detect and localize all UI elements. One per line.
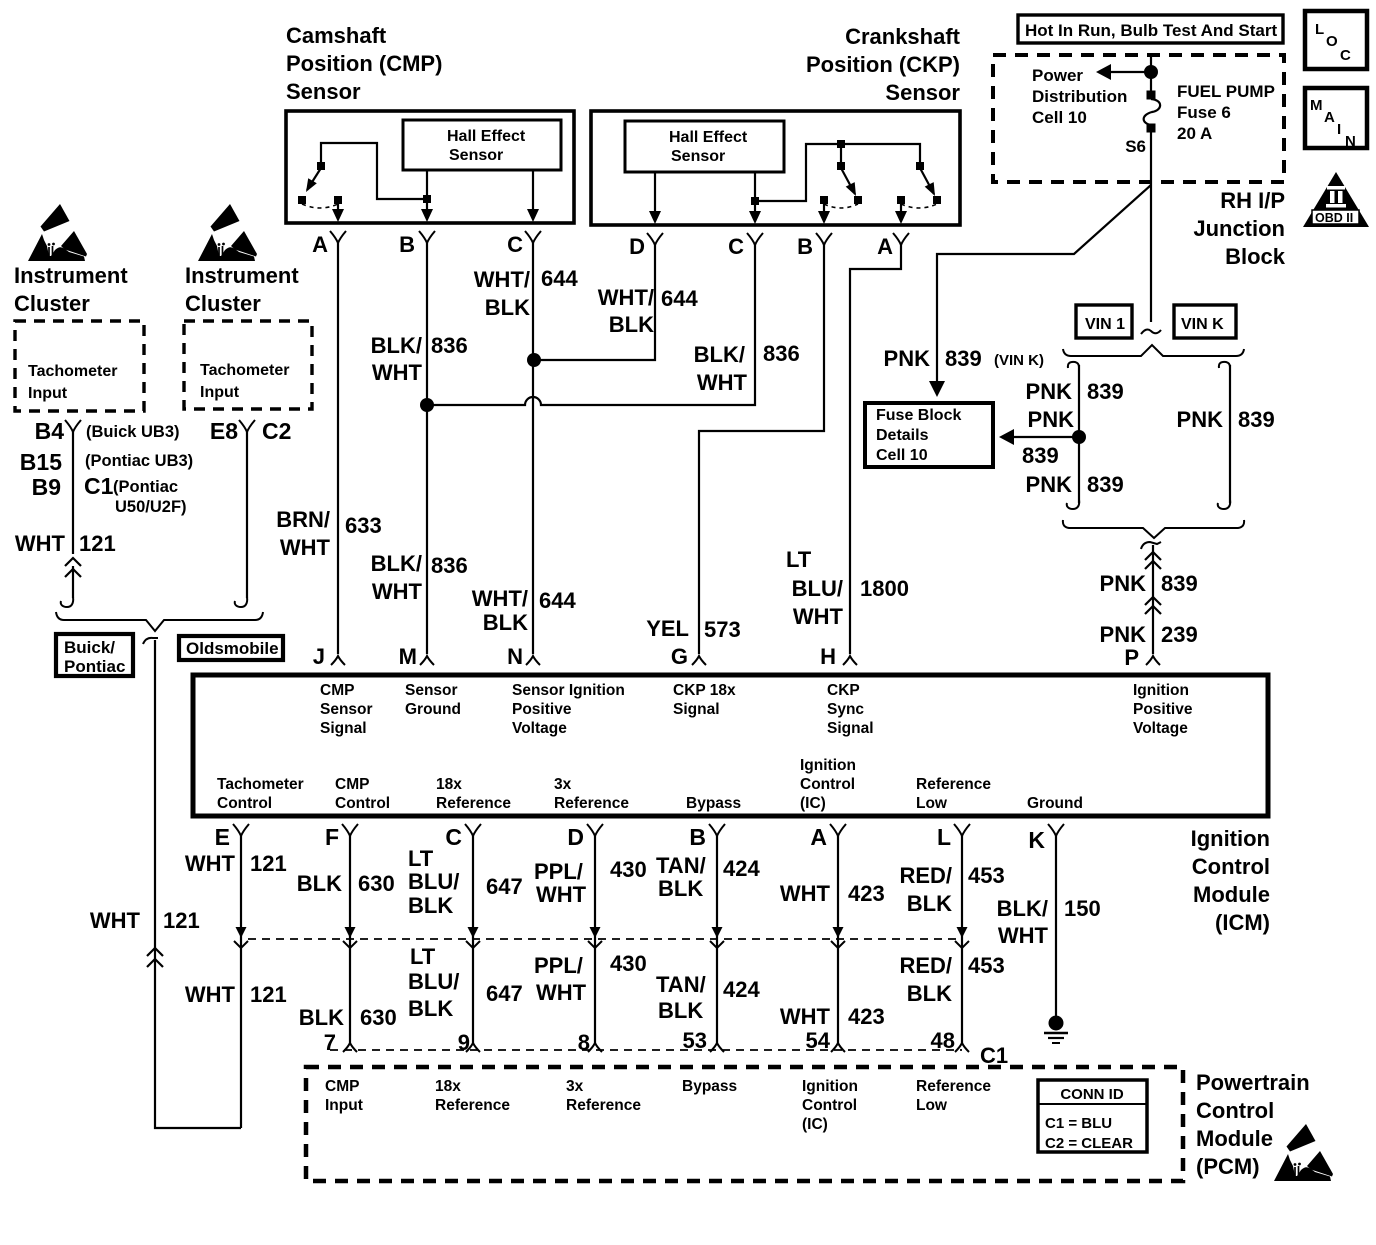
svg-text:PNK: PNK xyxy=(884,346,931,371)
svg-text:I: I xyxy=(1337,121,1341,138)
branch wire VIN K xyxy=(1218,362,1230,509)
CMP connector pin C xyxy=(507,231,541,257)
svg-text:PNK: PNK xyxy=(1100,571,1147,596)
merge brace below branches xyxy=(1063,520,1244,538)
svg-text:453: 453 xyxy=(968,863,1005,888)
svg-text:644: 644 xyxy=(539,588,576,613)
label Instrument Cluster 2 xyxy=(185,263,299,316)
svg-text:Reference: Reference xyxy=(916,1078,991,1095)
ground symbol xyxy=(1044,1016,1068,1044)
svg-text:A: A xyxy=(1324,109,1335,126)
svg-text:B: B xyxy=(797,234,813,259)
CKP sensor box xyxy=(591,111,960,225)
label WHT/BLK 644 lower xyxy=(472,586,577,635)
ICM bottom pin K xyxy=(1028,824,1064,853)
svg-text:A: A xyxy=(312,232,328,257)
svg-text:BLK/: BLK/ xyxy=(694,342,745,367)
label BLK 630 7 (F lower) xyxy=(299,1005,397,1055)
svg-text:C2 = CLEAR: C2 = CLEAR xyxy=(1045,1135,1133,1152)
ICM bottom pin F xyxy=(325,824,358,850)
svg-text:WHT: WHT xyxy=(780,881,831,906)
svg-text:Ground: Ground xyxy=(1027,795,1083,812)
label Instrument Cluster 1 xyxy=(14,263,128,316)
arrow to Power Distribution xyxy=(1096,64,1151,80)
svg-text:BLK: BLK xyxy=(907,891,952,916)
wire continuation chevrons xyxy=(1145,552,1161,569)
svg-text:Instrument: Instrument xyxy=(185,263,299,288)
svg-text:20 A: 20 A xyxy=(1177,124,1212,143)
svg-text:1800: 1800 xyxy=(860,576,909,601)
CKP connector pin A xyxy=(877,233,909,259)
svg-text:C2: C2 xyxy=(262,418,291,444)
RH I/P Junction Block dashed box xyxy=(993,55,1284,182)
svg-text:Tachometer: Tachometer xyxy=(200,362,290,379)
VIN K box xyxy=(1174,305,1236,338)
ICM pin label Ignition Control (IC) xyxy=(800,757,856,812)
label PNK 839 lower on VIN1 branch xyxy=(1026,472,1124,497)
label WHT/BLK 644 upper xyxy=(474,266,579,320)
svg-text:Camshaft: Camshaft xyxy=(286,23,387,48)
connector pin B4 xyxy=(35,418,81,444)
svg-text:Fuse 6: Fuse 6 xyxy=(1177,103,1231,122)
svg-text:121: 121 xyxy=(163,908,200,933)
pass-through connector on wire F xyxy=(343,927,357,948)
svg-text:LT: LT xyxy=(408,846,434,871)
svg-text:Hall Effect: Hall Effect xyxy=(669,129,748,146)
OBD II symbol xyxy=(1303,172,1369,227)
svg-text:633: 633 xyxy=(345,513,382,538)
connector pin E8 C2 xyxy=(210,418,292,444)
Hot In Run Bulb Test And Start box xyxy=(1018,15,1283,43)
svg-text:YEL: YEL xyxy=(646,616,689,641)
svg-text:647: 647 xyxy=(486,874,523,899)
svg-text:WHT/: WHT/ xyxy=(598,285,654,310)
svg-text:Sensor: Sensor xyxy=(286,79,361,104)
svg-text:Powertrain: Powertrain xyxy=(1196,1070,1310,1095)
pass-through connector on wire C xyxy=(466,927,480,948)
ICM top pin M xyxy=(399,644,434,669)
svg-text:RED/: RED/ xyxy=(899,863,952,888)
svg-text:C1: C1 xyxy=(84,473,114,499)
svg-text:BLK: BLK xyxy=(299,1005,344,1030)
svg-text:(Pontiac: (Pontiac xyxy=(113,478,178,496)
svg-text:839: 839 xyxy=(1161,571,1198,596)
svg-text:RH I/P: RH I/P xyxy=(1220,188,1285,213)
label Powertrain Control Module (PCM) xyxy=(1196,1070,1310,1179)
svg-text:Position (CKP): Position (CKP) xyxy=(806,52,960,77)
svg-text:121: 121 xyxy=(250,851,287,876)
lower dashed line at PCM connector xyxy=(330,1049,962,1051)
ICM bottom pin B xyxy=(689,824,725,850)
label WHT 121 (E lower) xyxy=(185,982,287,1007)
svg-text:M: M xyxy=(399,644,417,669)
svg-text:Module: Module xyxy=(1193,882,1270,907)
ICM pin label CKP 18x Signal xyxy=(673,682,736,718)
svg-text:839: 839 xyxy=(1238,407,1275,432)
svg-text:Bypass: Bypass xyxy=(686,795,741,812)
label WHT 423 (A upper) xyxy=(780,881,885,906)
gather brace Buick/Pontiac/Oldsmobile xyxy=(56,612,263,631)
Fuse Block Details Cell 10 box xyxy=(865,403,993,467)
wire CKP pin C internal with arrow xyxy=(749,172,761,224)
ICM pin label Tachometer Control xyxy=(217,776,304,812)
svg-text:WHT: WHT xyxy=(372,579,423,604)
svg-text:WHT: WHT xyxy=(15,531,66,556)
wire CKP D joins N wire xyxy=(533,243,655,360)
svg-text:Sensor Ignition: Sensor Ignition xyxy=(512,682,625,699)
svg-text:Control: Control xyxy=(1192,854,1270,879)
svg-text:3x: 3x xyxy=(554,776,572,793)
label LT BLU/WHT 1800 xyxy=(786,547,909,629)
Tachometer Input dashed box 1 xyxy=(15,321,144,411)
svg-text:836: 836 xyxy=(431,553,468,578)
label BLK/WHT 150 (K) xyxy=(997,896,1101,948)
wire A (WHT 423) xyxy=(837,836,839,1044)
svg-text:Distribution: Distribution xyxy=(1032,87,1127,106)
svg-text:PNK: PNK xyxy=(1028,407,1075,432)
wire CMP A to J (BRN/WHT 633) xyxy=(337,243,339,654)
VIN 1 box xyxy=(1076,305,1132,338)
label YEL 573 xyxy=(646,616,741,642)
svg-text:BLK/: BLK/ xyxy=(371,551,422,576)
svg-text:BLK: BLK xyxy=(658,998,703,1023)
svg-text:N: N xyxy=(507,644,523,669)
label BLK/WHT 836 lower xyxy=(371,551,468,604)
pass-through connector on wire D xyxy=(588,927,602,948)
ICM top pin J xyxy=(313,644,345,669)
svg-text:WHT: WHT xyxy=(780,1004,831,1029)
wire CKP pin A internal with arrow xyxy=(895,204,907,224)
svg-text:BLK: BLK xyxy=(609,312,654,337)
ICM top pin P xyxy=(1124,645,1160,670)
svg-text:BLU/: BLU/ xyxy=(792,576,843,601)
svg-text:BLK: BLK xyxy=(907,981,952,1006)
svg-text:18x: 18x xyxy=(435,1078,461,1095)
ICM top pin G xyxy=(671,644,706,669)
svg-text:C: C xyxy=(1340,47,1351,64)
svg-text:(PCM): (PCM) xyxy=(1196,1154,1260,1179)
svg-text:BLK/: BLK/ xyxy=(997,896,1048,921)
wire F (BLK 630) xyxy=(349,836,351,1044)
svg-text:Power: Power xyxy=(1032,66,1083,85)
wire K to ground (BLK/WHT 150) xyxy=(1055,836,1057,1016)
svg-text:Ignition: Ignition xyxy=(800,757,856,774)
svg-text:Ignition: Ignition xyxy=(802,1078,858,1095)
wire fuse output down xyxy=(1150,132,1152,185)
svg-text:Input: Input xyxy=(200,384,240,401)
svg-text:WHT/: WHT/ xyxy=(472,586,528,611)
svg-text:Low: Low xyxy=(916,1097,948,1114)
svg-text:630: 630 xyxy=(360,1005,397,1030)
svg-text:Hot In Run, Bulb Test And Star: Hot In Run, Bulb Test And Start xyxy=(1025,21,1277,40)
wire CKP B to G (YEL 573) xyxy=(699,243,824,654)
svg-text:(Buick UB3): (Buick UB3) xyxy=(86,423,180,441)
svg-text:D: D xyxy=(567,824,584,850)
label PPL/WHT 430 (D upper) xyxy=(534,857,647,907)
svg-text:BRN/: BRN/ xyxy=(276,507,330,532)
label (Pontiac U50/U2F) xyxy=(113,478,187,516)
Oldsmobile box xyxy=(179,636,283,660)
svg-text:S6: S6 xyxy=(1125,137,1146,156)
svg-text:Reference: Reference xyxy=(554,795,629,812)
ICM pin label CKP Sync Signal xyxy=(827,682,874,737)
svg-text:839: 839 xyxy=(1087,379,1124,404)
arrow to Fuse Block Details xyxy=(999,429,1079,445)
Ignition Control Module box xyxy=(193,675,1268,816)
svg-text:647: 647 xyxy=(486,981,523,1006)
svg-text:Reference: Reference xyxy=(436,795,511,812)
svg-text:(Pontiac UB3): (Pontiac UB3) xyxy=(85,452,193,470)
svg-text:Hall Effect: Hall Effect xyxy=(447,128,526,145)
ICM pin label CMP Control xyxy=(335,776,390,812)
pass-through connector on wire E xyxy=(234,927,248,948)
svg-text:121: 121 xyxy=(79,531,116,556)
svg-text:18x: 18x xyxy=(436,776,462,793)
svg-text:CONN ID: CONN ID xyxy=(1060,1086,1124,1103)
ICM bottom pin A xyxy=(810,824,846,850)
svg-text:Oldsmobile: Oldsmobile xyxy=(186,639,279,658)
label WHT 121 (B4 wire) xyxy=(15,531,116,556)
split brace under VIN boxes xyxy=(1063,345,1244,356)
svg-text:Sensor: Sensor xyxy=(320,701,373,718)
svg-text:BLK: BLK xyxy=(658,876,703,901)
label BRN/WHT 633 xyxy=(276,507,382,560)
svg-text:PNK: PNK xyxy=(1177,407,1224,432)
CMP sensor box xyxy=(286,111,574,223)
svg-text:Sensor: Sensor xyxy=(405,682,458,699)
svg-text:644: 644 xyxy=(661,286,698,311)
label RED/BLK 453 48 (L lower) xyxy=(899,953,1004,1053)
svg-text:54: 54 xyxy=(806,1028,831,1053)
pass-through connector on wire L xyxy=(955,927,969,948)
wire CMP C to N (WHT/BLK 644) xyxy=(532,243,534,654)
label LT BLU/BLK 647 (C upper) xyxy=(408,846,523,918)
svg-text:423: 423 xyxy=(848,881,885,906)
svg-text:C: C xyxy=(507,232,523,257)
svg-text:836: 836 xyxy=(431,333,468,358)
wire from B4 xyxy=(72,432,74,554)
svg-text:Pontiac: Pontiac xyxy=(64,657,125,676)
wire D (PPL/WHT 430) xyxy=(594,836,596,1044)
svg-text:WHT: WHT xyxy=(90,908,141,933)
label PNK 839 on VIN1 branch xyxy=(1026,379,1124,404)
PCM pin label 3x Reference xyxy=(566,1078,641,1114)
wire CKP pin B internal with arrow xyxy=(818,204,830,224)
svg-text:Details: Details xyxy=(876,427,929,444)
wire CMP B to M (BLK/WHT 836) xyxy=(426,243,428,654)
CKP connector pin D xyxy=(629,233,663,259)
svg-text:430: 430 xyxy=(610,951,647,976)
svg-text:A: A xyxy=(810,824,827,850)
junction node sensor ground bus xyxy=(420,398,434,412)
svg-text:WHT: WHT xyxy=(697,370,748,395)
svg-text:Sync: Sync xyxy=(827,701,864,718)
arrow into fuse block details xyxy=(929,381,945,397)
pass-through connector on wire B xyxy=(710,927,724,948)
svg-text:B: B xyxy=(689,824,706,850)
label Power Distribution Cell 10 xyxy=(1032,66,1127,127)
Buick/Pontiac box xyxy=(56,634,133,676)
svg-text:Cell 10: Cell 10 xyxy=(876,447,928,464)
svg-text:P: P xyxy=(1124,645,1139,670)
ICM top pin H xyxy=(820,644,857,669)
junction node D to C xyxy=(527,353,541,367)
label TAN/BLK 424 (B upper) xyxy=(656,853,760,901)
wire CMP pin C internal with arrow xyxy=(527,170,539,222)
CKP connector pin B xyxy=(797,233,832,259)
wire from brace down with hook xyxy=(143,638,241,1128)
svg-text:M: M xyxy=(1310,97,1323,114)
svg-text:PNK: PNK xyxy=(1026,379,1073,404)
PCM connector stub A xyxy=(831,1043,845,1052)
ICM pin label Sensor Ground xyxy=(405,682,461,718)
wire continuation chevrons on left riser xyxy=(147,948,163,967)
PCM connector stub L xyxy=(955,1043,969,1052)
svg-text:7: 7 xyxy=(324,1030,336,1055)
svg-text:G: G xyxy=(671,644,688,669)
ICM pin label 18x Reference xyxy=(436,776,511,812)
svg-text:121: 121 xyxy=(250,982,287,1007)
wire from hot feed down xyxy=(1150,55,1152,92)
svg-text:C: C xyxy=(728,234,744,259)
svg-text:FUEL PUMP: FUEL PUMP xyxy=(1177,82,1275,101)
sensor ground bus wire with hop over C xyxy=(427,243,755,405)
svg-text:CMP: CMP xyxy=(335,776,369,793)
svg-text:Fuse Block: Fuse Block xyxy=(876,407,961,424)
junction node to fuse block xyxy=(1072,430,1086,444)
svg-text:430: 430 xyxy=(610,857,647,882)
PCM connector stub F xyxy=(343,1043,357,1052)
label RH I/P Junction Block xyxy=(1193,188,1285,269)
svg-text:839: 839 xyxy=(945,346,982,371)
wire CMP pin B internal with arrow xyxy=(421,170,433,222)
CKP connector pin C xyxy=(728,233,763,259)
svg-text:CMP: CMP xyxy=(325,1078,359,1095)
wire continuation chevrons on B4 wire xyxy=(65,558,81,577)
svg-text:WHT: WHT xyxy=(280,535,331,560)
svg-text:WHT: WHT xyxy=(536,980,587,1005)
label WHT 121 (E upper) xyxy=(185,851,287,876)
svg-text:Bypass: Bypass xyxy=(682,1078,737,1095)
wire continuation chevrons 2 xyxy=(1145,597,1161,614)
label BLK 630 (F upper) xyxy=(297,871,395,896)
svg-text:BLK: BLK xyxy=(483,610,528,635)
ICM bottom pin L xyxy=(937,824,970,850)
wire to P with hook xyxy=(1141,542,1161,654)
svg-text:Control: Control xyxy=(802,1097,857,1114)
svg-text:BLU/: BLU/ xyxy=(408,969,459,994)
label TAN/BLK 424 53 (B lower) xyxy=(656,972,760,1053)
wire B4 lower with hook xyxy=(61,566,73,607)
svg-text:WHT: WHT xyxy=(536,882,587,907)
svg-text:B: B xyxy=(399,232,415,257)
svg-text:(IC): (IC) xyxy=(800,795,826,812)
svg-text:Sensor: Sensor xyxy=(885,80,960,105)
svg-text:CKP 18x: CKP 18x xyxy=(673,682,736,699)
svg-text:53: 53 xyxy=(683,1028,707,1053)
ICM pin label Sensor Ignition Positive Voltage xyxy=(512,682,625,737)
svg-text:9: 9 xyxy=(458,1030,470,1055)
PCM connector stub B xyxy=(710,1043,724,1052)
svg-text:BLK: BLK xyxy=(297,871,342,896)
PCM pin label Ignition Control (IC) xyxy=(802,1078,858,1133)
svg-text:Signal: Signal xyxy=(673,701,720,718)
label PNK 839 xyxy=(1100,571,1198,596)
svg-text:836: 836 xyxy=(763,341,800,366)
svg-text:Ignition: Ignition xyxy=(1191,826,1270,851)
svg-text:A: A xyxy=(877,234,893,259)
svg-text:CKP: CKP xyxy=(827,682,860,699)
fuse FUEL PUMP Fuse 6 20 A xyxy=(1144,91,1161,133)
svg-text:Input: Input xyxy=(28,385,68,402)
label PNK 839 around arrow xyxy=(1022,407,1074,468)
svg-text:Low: Low xyxy=(916,795,948,812)
svg-text:424: 424 xyxy=(723,977,760,1002)
svg-text:Signal: Signal xyxy=(827,720,874,737)
branch wire VIN 1 xyxy=(1067,362,1079,509)
label Camshaft Position (CMP) Sensor xyxy=(286,23,442,104)
svg-text:239: 239 xyxy=(1161,622,1198,647)
svg-text:PNK: PNK xyxy=(1026,472,1073,497)
ICM bottom pin C xyxy=(445,824,481,850)
svg-text:B15: B15 xyxy=(20,449,62,475)
junction node power tap xyxy=(1144,65,1158,79)
svg-text:Ignition: Ignition xyxy=(1133,682,1189,699)
svg-text:Reference: Reference xyxy=(435,1097,510,1114)
svg-text:C1 = BLU: C1 = BLU xyxy=(1045,1115,1112,1132)
PCM pin label 18x Reference xyxy=(435,1078,510,1114)
ICM bottom pin E xyxy=(215,824,249,850)
svg-text:Position (CMP): Position (CMP) xyxy=(286,51,442,76)
svg-text:WHT: WHT xyxy=(185,982,236,1007)
svg-text:573: 573 xyxy=(704,617,741,642)
ICM pin label CMP Sensor Signal xyxy=(320,682,373,737)
wire E (WHT 121) xyxy=(240,836,242,1128)
svg-text:Control: Control xyxy=(800,776,855,793)
svg-text:N: N xyxy=(1345,133,1356,150)
svg-text:Positive: Positive xyxy=(1133,701,1193,718)
svg-text:644: 644 xyxy=(541,266,578,291)
PCM connector stub C xyxy=(466,1043,480,1052)
Powertrain Control Module dashed box xyxy=(306,1067,1183,1181)
svg-text:Reference: Reference xyxy=(566,1097,641,1114)
svg-text:Control: Control xyxy=(217,795,272,812)
label WHT/BLK 644 (D wire) xyxy=(598,285,699,337)
svg-text:WHT: WHT xyxy=(372,360,423,385)
CONN ID box xyxy=(1038,1080,1147,1152)
svg-text:Sensor: Sensor xyxy=(449,147,503,164)
CMP interrupter switch xyxy=(298,143,424,208)
svg-text:C: C xyxy=(445,824,462,850)
svg-text:Cluster: Cluster xyxy=(185,291,261,316)
MAIN reference box xyxy=(1305,88,1367,150)
svg-text:O: O xyxy=(1326,33,1338,50)
svg-text:B4: B4 xyxy=(35,418,65,444)
svg-text:F: F xyxy=(325,824,339,850)
inline connector dashed line xyxy=(248,938,962,940)
svg-text:Cluster: Cluster xyxy=(14,291,90,316)
label PNK 239 xyxy=(1100,622,1198,647)
svg-text:Control: Control xyxy=(335,795,390,812)
label RED/BLK 453 (L upper) xyxy=(899,863,1004,916)
ICM top pin N xyxy=(507,644,540,669)
label PNK 839 on VINK branch xyxy=(1177,407,1275,432)
svg-text:PNK: PNK xyxy=(1100,622,1147,647)
svg-text:E: E xyxy=(215,824,230,850)
svg-text:OBD II: OBD II xyxy=(1315,211,1353,225)
svg-text:Control: Control xyxy=(1196,1098,1274,1123)
PCM pin label CMP Input xyxy=(325,1078,363,1114)
